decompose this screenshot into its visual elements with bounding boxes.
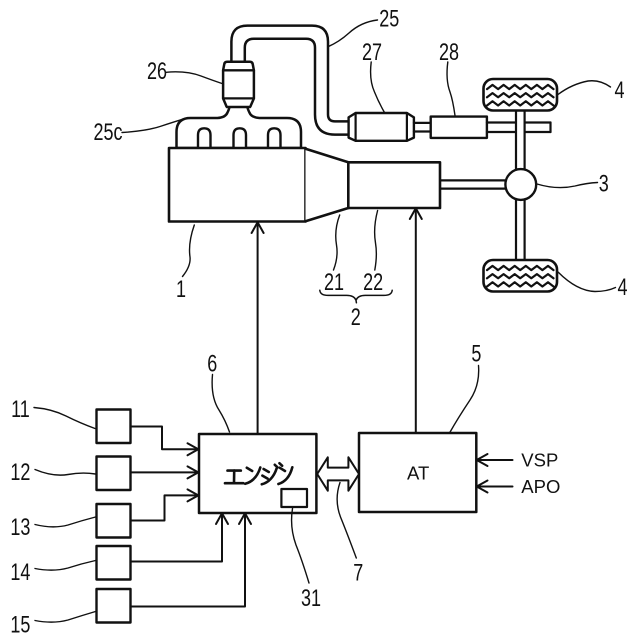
wire ECU to engine arrow xyxy=(252,222,264,434)
svg-text:12: 12 xyxy=(10,459,30,485)
bidirectional arrow 7 xyxy=(317,457,359,490)
wire AT to transmission arrow xyxy=(410,208,422,433)
intake manifold plenum 25c xyxy=(177,107,302,149)
leader line 1 xyxy=(183,225,195,277)
svg-text:27: 27 xyxy=(362,39,382,65)
catalytic converter 27 xyxy=(349,113,414,141)
leader line 25c xyxy=(122,118,188,133)
ECU box 6 (engine controller) xyxy=(199,434,316,513)
svg-text:21: 21 xyxy=(324,270,344,296)
leader line 15 xyxy=(35,612,96,623)
svg-text:14: 14 xyxy=(10,559,30,585)
sensor box 11 xyxy=(97,410,131,444)
AT box 5 xyxy=(359,433,476,512)
lower axle shaft xyxy=(516,197,525,262)
leader line 11 xyxy=(34,408,95,429)
svg-text:1: 1 xyxy=(176,276,186,302)
transmission 22 xyxy=(348,162,440,208)
wire tailpipe xyxy=(487,123,551,133)
svg-text:22: 22 xyxy=(363,270,383,296)
controller box 31 xyxy=(281,489,307,507)
svg-text:15: 15 xyxy=(10,612,30,638)
wire box12 to ECU xyxy=(131,466,199,478)
leader line 25 xyxy=(328,20,378,47)
sensor box 14 xyxy=(97,546,131,580)
svg-text:AT: AT xyxy=(407,463,429,484)
front wheel 4 xyxy=(484,79,558,111)
svg-text:25: 25 xyxy=(379,6,399,32)
svg-text:25c: 25c xyxy=(93,120,122,146)
leader line 26 xyxy=(166,72,224,84)
svg-text:4: 4 xyxy=(614,78,624,104)
wire box13 to ECU xyxy=(131,489,199,520)
leader line 5 xyxy=(450,366,479,433)
intake runner arch 3 xyxy=(268,128,281,148)
leader line 28 xyxy=(447,62,455,116)
brace for node 2 xyxy=(320,290,392,303)
bell housing trapezoid 21 xyxy=(306,149,349,222)
svg-text:2: 2 xyxy=(351,305,361,331)
leader line 4 front xyxy=(558,81,611,95)
upper axle shaft xyxy=(516,106,525,172)
svg-text:31: 31 xyxy=(301,586,321,612)
sensor box 13 xyxy=(97,504,131,538)
sensor box 12 xyxy=(97,457,131,491)
intake runner arch 1 xyxy=(198,128,211,148)
svg-text:11: 11 xyxy=(11,397,30,423)
sensor box 15 xyxy=(97,589,131,623)
svg-text:4: 4 xyxy=(617,275,627,301)
muffler 28 xyxy=(431,117,487,138)
svg-text:13: 13 xyxy=(10,514,30,540)
svg-text:7: 7 xyxy=(353,560,363,586)
leader line 7 xyxy=(337,483,356,559)
throttle body 26 xyxy=(223,62,254,107)
wire exhaust pipe cat to muffler xyxy=(414,123,431,132)
leader line 21 xyxy=(334,215,340,270)
transmission output shaft wire xyxy=(440,180,508,188)
leader line 27 xyxy=(371,62,385,113)
leader line 13 xyxy=(35,517,96,527)
leader line 6 xyxy=(212,375,229,433)
leader line 31 xyxy=(292,509,309,584)
svg-text:APO: APO xyxy=(521,476,560,497)
wire box15 to ECU xyxy=(131,513,252,606)
intake runner arch 2 xyxy=(234,128,247,148)
svg-text:5: 5 xyxy=(471,341,481,367)
svg-text:26: 26 xyxy=(147,59,167,85)
katakana text engine xyxy=(225,463,292,484)
leader line 4 rear xyxy=(558,272,616,292)
wire VSP arrow xyxy=(477,454,513,466)
wire APO arrow xyxy=(477,481,513,493)
svg-text:VSP: VSP xyxy=(521,450,558,471)
wire box11 to ECU xyxy=(131,427,199,456)
leader line 12 xyxy=(35,470,96,476)
wire box14 to ECU xyxy=(131,513,229,561)
engine block 1 xyxy=(169,148,306,222)
leader line 3 xyxy=(537,183,598,188)
svg-text:6: 6 xyxy=(207,351,217,377)
leader line 22 xyxy=(375,211,378,271)
wire intake pipe 25 outer xyxy=(231,26,350,135)
rear wheel 4 xyxy=(484,260,558,292)
differential 3 xyxy=(505,169,536,200)
svg-text:28: 28 xyxy=(439,39,459,65)
svg-text:3: 3 xyxy=(599,171,609,197)
leader line 14 xyxy=(35,561,96,571)
